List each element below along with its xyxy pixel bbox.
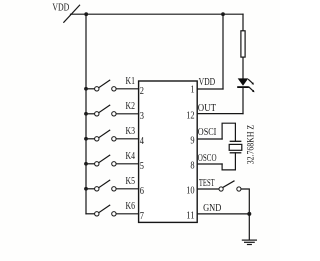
wire K6 stub from bus	[86, 213, 95, 215]
wire LED to OUT	[242, 88, 244, 114]
pin 5	[140, 161, 144, 172]
LED	[237, 78, 254, 92]
wire K5 stub from bus	[86, 188, 95, 190]
svg-text:K5: K5	[126, 176, 136, 187]
wire K3 stub from bus	[86, 138, 95, 140]
power flag slash	[64, 5, 80, 22]
svg-text:VDD: VDD	[199, 77, 216, 88]
svg-text:8: 8	[190, 160, 194, 171]
wire K4 to pin5	[116, 163, 139, 165]
resistor	[241, 31, 245, 57]
switch K5	[95, 180, 117, 191]
wire K1 to pin2	[116, 88, 139, 90]
pin 11	[186, 210, 194, 221]
switch K2	[95, 105, 117, 116]
label GND	[203, 203, 221, 214]
svg-text:VDD: VDD	[52, 2, 69, 13]
wire left bus	[85, 14, 87, 214]
label K6	[126, 201, 136, 212]
wire K1 stub from bus	[86, 88, 95, 90]
node K2 bus junction	[84, 112, 88, 116]
label OSCO	[198, 153, 217, 164]
pin 3	[140, 111, 144, 122]
wire top rail	[71, 13, 244, 15]
svg-text:5: 5	[140, 161, 144, 172]
wire GND pin11 stub	[197, 213, 249, 215]
svg-text:K6: K6	[126, 201, 136, 212]
svg-text:GND: GND	[203, 203, 221, 214]
label K4	[126, 151, 136, 162]
svg-text:3: 3	[140, 111, 144, 122]
node K4 bus junction	[84, 162, 88, 166]
svg-text:TEST: TEST	[199, 178, 215, 189]
ground	[242, 240, 256, 244]
wire rail to resistor	[242, 14, 244, 31]
svg-text:4: 4	[140, 136, 145, 147]
wire K4 stub from bus	[86, 163, 95, 165]
switch K4	[95, 155, 117, 166]
label VDD	[199, 77, 216, 88]
wire K3 to pin4	[116, 138, 139, 140]
node K3 bus junction	[84, 137, 88, 141]
crystal 32.768kHz	[229, 141, 242, 153]
label K2	[126, 101, 136, 112]
label 32.768KHZ	[245, 125, 255, 165]
node K5 bus junction	[84, 187, 88, 191]
pin 9	[190, 135, 194, 146]
pin 8	[190, 160, 194, 171]
svg-text:OSCI: OSCI	[198, 127, 217, 138]
pin 1	[190, 85, 194, 96]
wire pin1 drop	[222, 14, 224, 89]
switch K3	[95, 130, 117, 141]
wire OSCI to crystal	[222, 123, 235, 141]
pin 6	[140, 186, 144, 197]
label OUT	[198, 103, 217, 114]
svg-text:K3: K3	[126, 126, 136, 137]
svg-text:7: 7	[140, 211, 144, 222]
switch K1	[95, 80, 117, 91]
wire VDD pin1 stub	[197, 88, 223, 90]
wire K2 to pin3	[116, 113, 139, 115]
IC body	[139, 81, 198, 222]
label K1	[126, 76, 136, 87]
wire TEST switch to ground net	[241, 189, 249, 214]
svg-text:12: 12	[186, 111, 194, 122]
power flag VDD label	[52, 2, 69, 13]
pin 10	[186, 185, 194, 196]
wire TEST pin10 stub	[197, 188, 219, 190]
switch TEST	[219, 181, 241, 191]
pin 4	[140, 136, 145, 147]
wire OUT pin12 stub	[197, 113, 243, 115]
svg-text:K2: K2	[126, 101, 136, 112]
node rail/left-bus junction	[84, 12, 88, 16]
svg-text:OUT: OUT	[198, 103, 217, 114]
svg-text:9: 9	[190, 135, 194, 146]
label K3	[126, 126, 136, 137]
pin 12	[186, 111, 194, 122]
node rail/pin1 junction	[221, 12, 225, 16]
svg-text:K4: K4	[126, 151, 136, 162]
wire to ground	[248, 214, 250, 240]
svg-text:10: 10	[186, 185, 194, 196]
node GND junction	[247, 212, 251, 216]
svg-text:32.768KH Z: 32.768KH Z	[245, 125, 255, 165]
wire K5 to pin6	[116, 188, 139, 190]
wire resistor to LED	[242, 57, 244, 78]
svg-text:2: 2	[140, 86, 144, 97]
pin 2	[140, 86, 144, 97]
wire OSCI pin9 stub	[197, 138, 222, 140]
label OSCI	[198, 127, 217, 138]
switch K6	[95, 205, 117, 216]
wire K6 to pin7	[116, 213, 139, 215]
svg-text:11: 11	[186, 210, 194, 221]
svg-text:OSCO: OSCO	[198, 153, 217, 164]
label TEST	[199, 178, 215, 189]
label K5	[126, 176, 136, 187]
svg-text:1: 1	[190, 85, 194, 96]
wire K2 stub from bus	[86, 113, 95, 115]
node K1 bus junction	[84, 87, 88, 91]
svg-text:6: 6	[140, 186, 144, 197]
wire OSCO pin8 stub	[197, 163, 222, 165]
pin 7	[140, 211, 144, 222]
wire OSCO to crystal	[222, 153, 235, 170]
svg-text:K1: K1	[126, 76, 136, 87]
